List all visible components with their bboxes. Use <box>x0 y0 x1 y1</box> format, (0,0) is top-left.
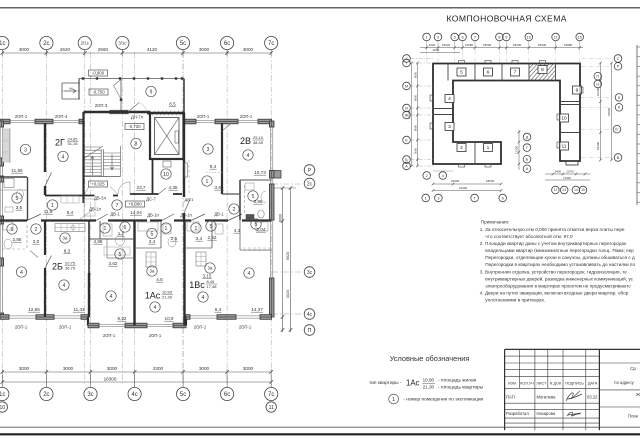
svg-text:7c: 7c <box>268 41 274 47</box>
svg-text:Перегородки в квартирах необх: Перегородки в квартирах необходимо устан… <box>485 262 635 267</box>
svg-text:18300: 18300 <box>513 43 522 47</box>
svg-text:3000: 3000 <box>243 366 254 371</box>
svg-text:1. За относительную отм 0,000: 1. За относительную отм 0,000 принята от… <box>480 227 625 232</box>
svg-text:5c: 5c <box>180 41 186 47</box>
svg-text:7: 7 <box>514 70 517 76</box>
svg-text:КОМПОНОВОЧНАЯ СХЕМА: КОМПОНОВОЧНАЯ СХЕМА <box>447 14 567 24</box>
svg-text:3,15: 3,15 <box>203 274 212 279</box>
svg-text:5: 5 <box>119 252 122 258</box>
svg-text:Разработал: Разработал <box>506 411 529 416</box>
svg-text:3,62: 3,62 <box>109 261 118 266</box>
svg-text:4: 4 <box>154 305 157 311</box>
svg-text:ПОДПИСЬ: ПОДПИСЬ <box>565 382 584 386</box>
svg-text:М: М <box>405 84 408 88</box>
svg-text:2c: 2c <box>43 392 49 398</box>
svg-text:3а: 3а <box>208 266 213 271</box>
svg-text:10: 10 <box>561 116 567 122</box>
svg-text:Ж: Ж <box>636 392 640 397</box>
svg-text:5: 5 <box>460 70 463 76</box>
svg-text:+0,000: +0,000 <box>128 202 142 207</box>
svg-text:N ДОК: N ДОК <box>550 382 562 386</box>
svg-text:15: 15 <box>578 35 582 39</box>
svg-text:9020: 9020 <box>286 252 290 260</box>
svg-text:2ОП-1: 2ОП-1 <box>239 325 252 330</box>
svg-text:10,90: 10,90 <box>423 377 435 382</box>
svg-text:17,48: 17,48 <box>207 284 218 289</box>
svg-text:5: 5 <box>11 227 14 233</box>
svg-text:1c: 1c <box>0 392 5 398</box>
svg-text:внутриквартирных дверей, разво: внутриквартирных дверей, разводка инжене… <box>485 275 633 281</box>
svg-text:Г: Г <box>526 146 528 150</box>
svg-text:3000: 3000 <box>199 47 210 52</box>
svg-text:2ОП-1: 2ОП-1 <box>149 333 162 338</box>
svg-text:9: 9 <box>505 35 507 39</box>
svg-text:1: 1 <box>104 226 107 232</box>
svg-text:12: 12 <box>554 188 558 192</box>
svg-text:4: 4 <box>202 295 205 301</box>
svg-text:Примечания:: Примечания: <box>481 220 509 225</box>
svg-text:4000: 4000 <box>433 48 440 52</box>
svg-text:2ОП-1: 2ОП-1 <box>240 114 253 119</box>
svg-text:И: И <box>405 106 408 110</box>
svg-text:3,4: 3,4 <box>149 239 156 244</box>
svg-text:8: 8 <box>135 141 138 147</box>
svg-text:Назарова: Назарова <box>537 411 556 416</box>
svg-text:19020: 19020 <box>442 43 451 47</box>
svg-text:4. Двери на путях эвакуации, в: 4. Двери на путях эвакуации, включая вхо… <box>480 291 629 296</box>
svg-text:10: 10 <box>0 405 5 411</box>
svg-text:ДАТА: ДАТА <box>588 382 598 386</box>
svg-text:3: 3 <box>448 124 451 130</box>
svg-text:ИЗМ: ИЗМ <box>508 382 516 386</box>
svg-text:6c: 6c <box>224 41 230 47</box>
svg-text:План: План <box>628 414 639 419</box>
svg-text:10: 10 <box>163 172 169 178</box>
svg-text:3000: 3000 <box>243 47 254 52</box>
svg-text:3000: 3000 <box>199 366 210 371</box>
svg-text:2c: 2c <box>43 41 49 47</box>
svg-text:21,30: 21,30 <box>423 384 435 389</box>
svg-text:-0,750: -0,750 <box>92 90 105 95</box>
svg-text:3c: 3c <box>87 392 93 398</box>
svg-text:6: 6 <box>502 196 504 200</box>
svg-text:П: П <box>308 328 312 334</box>
svg-text:11,55: 11,55 <box>11 168 23 173</box>
svg-text:2Г: 2Г <box>55 137 65 147</box>
svg-text:2620: 2620 <box>60 47 71 52</box>
svg-text:4: 4 <box>63 283 66 289</box>
svg-text:2. Площади квартир даны с учет: 2. Площади квартир даны с учетом внутрик… <box>480 241 627 246</box>
svg-text:ДН-7л: ДН-7л <box>131 115 144 120</box>
svg-text:3000: 3000 <box>107 366 118 371</box>
svg-text:Могилева: Могилева <box>537 395 557 400</box>
svg-text:6: 6 <box>461 35 463 39</box>
svg-text:А: А <box>405 164 408 168</box>
svg-text:4: 4 <box>62 154 65 160</box>
svg-text:4: 4 <box>110 294 113 300</box>
svg-text:14,37: 14,37 <box>251 307 263 312</box>
svg-text:2,0: 2,0 <box>33 239 40 244</box>
svg-text:А: А <box>526 167 529 171</box>
svg-text:4c: 4c <box>131 392 137 398</box>
svg-text:2с: 2с <box>307 181 313 187</box>
svg-text:6: 6 <box>124 225 127 231</box>
svg-text:4,3: 4,3 <box>234 228 241 233</box>
svg-text:18300: 18300 <box>596 141 600 150</box>
svg-text:3: 3 <box>207 147 210 153</box>
svg-text:1: 1 <box>165 226 168 232</box>
svg-text:ДВ-3л: ДВ-3л <box>94 196 106 201</box>
svg-text:ДВ-1: ДВ-1 <box>214 212 224 217</box>
svg-text:Ср: Ср <box>630 366 636 371</box>
svg-text:ДВ-1п: ДВ-1п <box>180 213 192 218</box>
svg-text:9: 9 <box>576 88 579 94</box>
svg-text:3,5: 3,5 <box>16 205 23 210</box>
svg-text:ЛИСТ: ЛИСТ <box>536 382 547 386</box>
svg-text:03.22: 03.22 <box>587 395 598 400</box>
svg-text:2ОП-1: 2ОП-1 <box>194 325 207 330</box>
svg-text:24300: 24300 <box>596 87 600 96</box>
svg-text:2560: 2560 <box>98 47 109 52</box>
svg-text:2,52: 2,52 <box>208 235 217 240</box>
svg-text:13: 13 <box>562 188 566 192</box>
svg-text:15: 15 <box>581 188 585 192</box>
svg-text:9000: 9000 <box>413 124 417 131</box>
svg-text:7c: 7c <box>268 392 274 398</box>
svg-text:1,2: 1,2 <box>118 231 125 236</box>
svg-text:4,35: 4,35 <box>169 185 178 190</box>
svg-text:уплотнениями в притворах.: уплотнениями в притворах. <box>485 298 545 303</box>
svg-text:ПАП: ПАП <box>506 395 515 400</box>
svg-text:- номер помещения по эксплика: - номер помещения по экспликации <box>403 398 483 403</box>
svg-text:3000: 3000 <box>63 366 74 371</box>
svg-text:3а: 3а <box>63 236 68 241</box>
svg-text:9000: 9000 <box>413 94 417 101</box>
svg-text:1: 1 <box>487 145 490 151</box>
svg-text:11: 11 <box>562 144 567 150</box>
svg-text:4: 4 <box>20 270 23 276</box>
svg-text:3а: 3а <box>150 269 155 274</box>
svg-text:1: 1 <box>425 196 427 200</box>
svg-text:4: 4 <box>442 174 444 178</box>
svg-text:2В: 2В <box>240 136 251 146</box>
svg-text:3300: 3300 <box>153 366 164 371</box>
svg-text:23,7: 23,7 <box>137 185 146 190</box>
svg-text:18300: 18300 <box>104 376 117 381</box>
svg-text:ДС-7: ДС-7 <box>146 197 156 202</box>
svg-text:3000: 3000 <box>19 366 30 371</box>
svg-text:П: П <box>596 75 599 79</box>
svg-text:ДВ-1п: ДВ-1п <box>147 213 159 218</box>
svg-text:2ОП-4: 2ОП-4 <box>55 114 68 119</box>
svg-text:3: 3 <box>24 147 27 153</box>
svg-text:5: 5 <box>454 35 456 39</box>
svg-text:Р: Р <box>617 65 620 69</box>
svg-text:8,4: 8,4 <box>67 210 74 215</box>
svg-text:1: 1 <box>426 35 428 39</box>
svg-text:2ОП-1: 2ОП-1 <box>103 333 116 338</box>
svg-text:4120: 4120 <box>147 47 158 52</box>
svg-text:2ОП-1: 2ОП-1 <box>15 114 28 119</box>
svg-text:1Вс: 1Вс <box>189 280 205 290</box>
svg-text:1: 1 <box>206 179 209 185</box>
svg-text:Н: Н <box>596 82 599 86</box>
svg-text:11700: 11700 <box>566 170 574 174</box>
svg-text:2ОП-1: 2ОП-1 <box>197 114 210 119</box>
svg-text:4020: 4020 <box>429 43 436 47</box>
svg-text:-0,730: -0,730 <box>128 124 141 129</box>
svg-text:18300: 18300 <box>538 43 547 47</box>
svg-text:тип квартиры -: тип квартиры - <box>369 381 402 386</box>
svg-text:ДВ-1л: ДВ-1л <box>89 207 101 212</box>
svg-text:Е': Е' <box>615 128 619 132</box>
svg-text:3. Внутренняя отделка, устройс: 3. Внутренняя отделка, устройство перего… <box>480 268 627 274</box>
svg-text:3/1c: 3/1c <box>118 41 127 46</box>
svg-text:10: 10 <box>527 35 531 39</box>
svg-text:3,66: 3,66 <box>215 185 224 190</box>
svg-text:3000: 3000 <box>19 47 30 52</box>
svg-text:2: 2 <box>233 207 236 213</box>
svg-text:5c: 5c <box>180 392 186 398</box>
svg-text:-0,900: -0,900 <box>92 71 105 76</box>
svg-text:3: 3 <box>437 35 439 39</box>
svg-text:3020: 3020 <box>286 290 290 298</box>
svg-text:2ОП-3: 2ОП-3 <box>95 103 108 108</box>
svg-text:2ОП-1: 2ОП-1 <box>15 325 28 330</box>
svg-text:Е: Е <box>405 138 408 142</box>
svg-text:электрооборудования в квартир: электрооборудования в квартирах проектом… <box>485 283 631 288</box>
svg-text:1: 1 <box>195 226 198 232</box>
svg-text:3с: 3с <box>307 270 313 276</box>
svg-text:41300: 41300 <box>459 186 468 190</box>
svg-text:2,5: 2,5 <box>171 236 178 241</box>
svg-text:8: 8 <box>541 67 544 73</box>
svg-text:11300: 11300 <box>515 146 519 154</box>
svg-text:5: 5 <box>151 231 154 237</box>
svg-text:С: С <box>617 57 620 61</box>
svg-text:21,30: 21,30 <box>162 294 173 299</box>
svg-text:14: 14 <box>574 188 578 192</box>
svg-text:10,73: 10,73 <box>254 170 266 175</box>
svg-text:3,4: 3,4 <box>196 236 203 241</box>
svg-text:51,15: 51,15 <box>68 141 79 146</box>
svg-text:2: 2 <box>460 145 463 151</box>
svg-text:18500: 18500 <box>483 43 492 47</box>
svg-text:1Ас: 1Ас <box>406 379 420 388</box>
svg-text:5: 5 <box>210 224 213 230</box>
svg-text:2,85: 2,85 <box>13 237 22 242</box>
svg-text:2: 2 <box>426 174 428 178</box>
svg-text:8,3: 8,3 <box>64 249 71 254</box>
svg-text:6,4: 6,4 <box>215 307 222 312</box>
svg-text:3,95: 3,95 <box>254 199 263 204</box>
svg-text:1: 1 <box>392 397 395 403</box>
svg-text:i%: i% <box>69 87 73 91</box>
svg-text:- площадь квартиры: - площадь квартиры <box>438 386 484 391</box>
svg-text:4,88: 4,88 <box>94 239 103 244</box>
svg-text:3: 3 <box>437 196 439 200</box>
svg-text:Перегородки, отделяющие кухни: Перегородки, отделяющие кухни и санузлы,… <box>485 255 635 260</box>
svg-text:11,43: 11,43 <box>73 307 85 312</box>
svg-text:9,4: 9,4 <box>210 164 217 169</box>
svg-text:2ОП-1: 2ОП-1 <box>59 325 72 330</box>
svg-text:11: 11 <box>269 405 274 411</box>
svg-text:18500: 18500 <box>486 179 495 183</box>
svg-text:2/1c: 2/1c <box>81 41 90 46</box>
svg-text:КОЛ.УЧ: КОЛ.УЧ <box>520 382 534 386</box>
svg-text:11: 11 <box>554 35 558 39</box>
svg-text:Условные обозначения: Условные обозначения <box>390 354 470 363</box>
svg-text:Ж: Ж <box>405 113 409 117</box>
svg-text:10,9: 10,9 <box>165 316 174 321</box>
svg-text:4: 4 <box>448 96 451 102</box>
svg-text:ДВ-1: ДВ-1 <box>110 212 120 217</box>
svg-text:6: 6 <box>487 70 490 76</box>
svg-text:1c: 1c <box>0 41 5 47</box>
svg-text:5000: 5000 <box>413 147 417 154</box>
svg-text:9: 9 <box>150 89 153 95</box>
svg-text:5: 5 <box>16 196 19 202</box>
svg-text:1: 1 <box>51 203 54 209</box>
svg-text:24900: 24900 <box>451 179 460 183</box>
svg-text:4: 4 <box>247 153 250 159</box>
svg-text:4,5: 4,5 <box>156 277 163 282</box>
svg-text:6400: 6400 <box>555 170 562 174</box>
svg-text:36,75: 36,75 <box>65 265 76 270</box>
svg-text:2,04: 2,04 <box>257 227 266 232</box>
svg-text:владельцами квартир (межкомнат: владельцами квартир (межкомнатные перего… <box>485 248 634 253</box>
svg-text:8: 8 <box>498 35 500 39</box>
svg-text:12,85: 12,85 <box>28 307 40 312</box>
svg-text:7: 7 <box>116 203 119 209</box>
svg-text:ДБ-1: ДБ-1 <box>185 197 195 202</box>
svg-text:64040: 64040 <box>607 107 611 116</box>
svg-text:Д: Д <box>526 135 529 139</box>
svg-text:1Ас: 1Ас <box>145 291 161 301</box>
svg-text:2Б: 2Б <box>52 262 63 272</box>
svg-text:по адресу: по адресу <box>614 380 634 385</box>
svg-text:9,32: 9,32 <box>118 316 127 321</box>
svg-text:2: 2 <box>35 227 38 233</box>
svg-text:14680: 14680 <box>465 43 474 47</box>
svg-text:8,5: 8,5 <box>169 102 176 107</box>
svg-text:6c: 6c <box>224 392 230 398</box>
svg-text:6000: 6000 <box>279 214 283 222</box>
svg-text:4с: 4с <box>307 312 313 318</box>
svg-text:9600: 9600 <box>413 71 417 78</box>
svg-text:что соответствует абсолютной о: что соответствует абсолютной отм. 97,0 <box>485 233 573 239</box>
svg-text:74400: 74400 <box>563 176 571 180</box>
svg-text:- площадь жилая: - площадь жилая <box>438 379 477 384</box>
svg-text:11,9: 11,9 <box>44 209 53 214</box>
svg-text:14,04: 14,04 <box>130 210 142 215</box>
svg-text:4: 4 <box>248 271 251 277</box>
svg-text:48,45: 48,45 <box>253 140 264 145</box>
svg-text:В: В <box>617 156 620 160</box>
svg-text:16880: 16880 <box>564 43 573 47</box>
svg-text:7: 7 <box>474 35 476 39</box>
svg-text:+0,025: +0,025 <box>91 182 105 187</box>
